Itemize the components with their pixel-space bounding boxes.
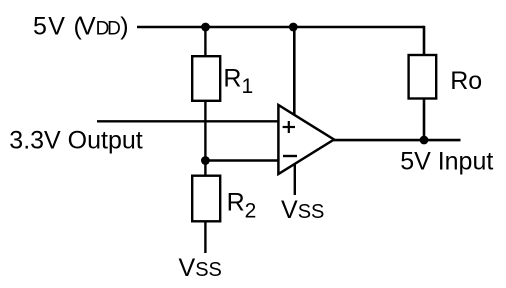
wire: top rail drop to Ro [423,26,426,56]
node: rail/V+ junction [289,23,298,32]
wire: rail to op-amp V+ [293,27,296,117]
wire: op-amp V- to Vss [294,160,296,195]
resistor Ro [409,55,437,99]
node: output/Ro junction [420,136,429,145]
svg-text:VSS: VSS [179,254,222,282]
wire: op-amp output / 5V Input line [333,139,461,142]
op-amp U1 [278,105,334,174]
wire: 3.3V Output to op-amp + input [97,120,279,122]
wire: R1-R2 connector [204,100,206,176]
wire: divider node to op-amp - input [205,159,279,161]
wire: Ro to output node [423,99,426,140]
node: rail/R1 junction [201,23,210,32]
svg-text:Ro: Ro [450,67,482,95]
svg-text:3.3V Output: 3.3V Output [9,126,142,154]
resistor R2 [192,176,220,222]
node: divider junction [201,156,210,165]
op-amp + input marker [283,121,295,133]
svg-text:VSS: VSS [281,196,324,224]
wire: R2 to Vss [204,221,206,253]
wire: rail to R1 [204,27,206,57]
wire: 5V (VDD) top rail [137,26,424,28]
resistor R1 [192,56,220,101]
svg-text:5V Input: 5V Input [400,147,493,175]
op-amp - input marker [283,155,297,157]
